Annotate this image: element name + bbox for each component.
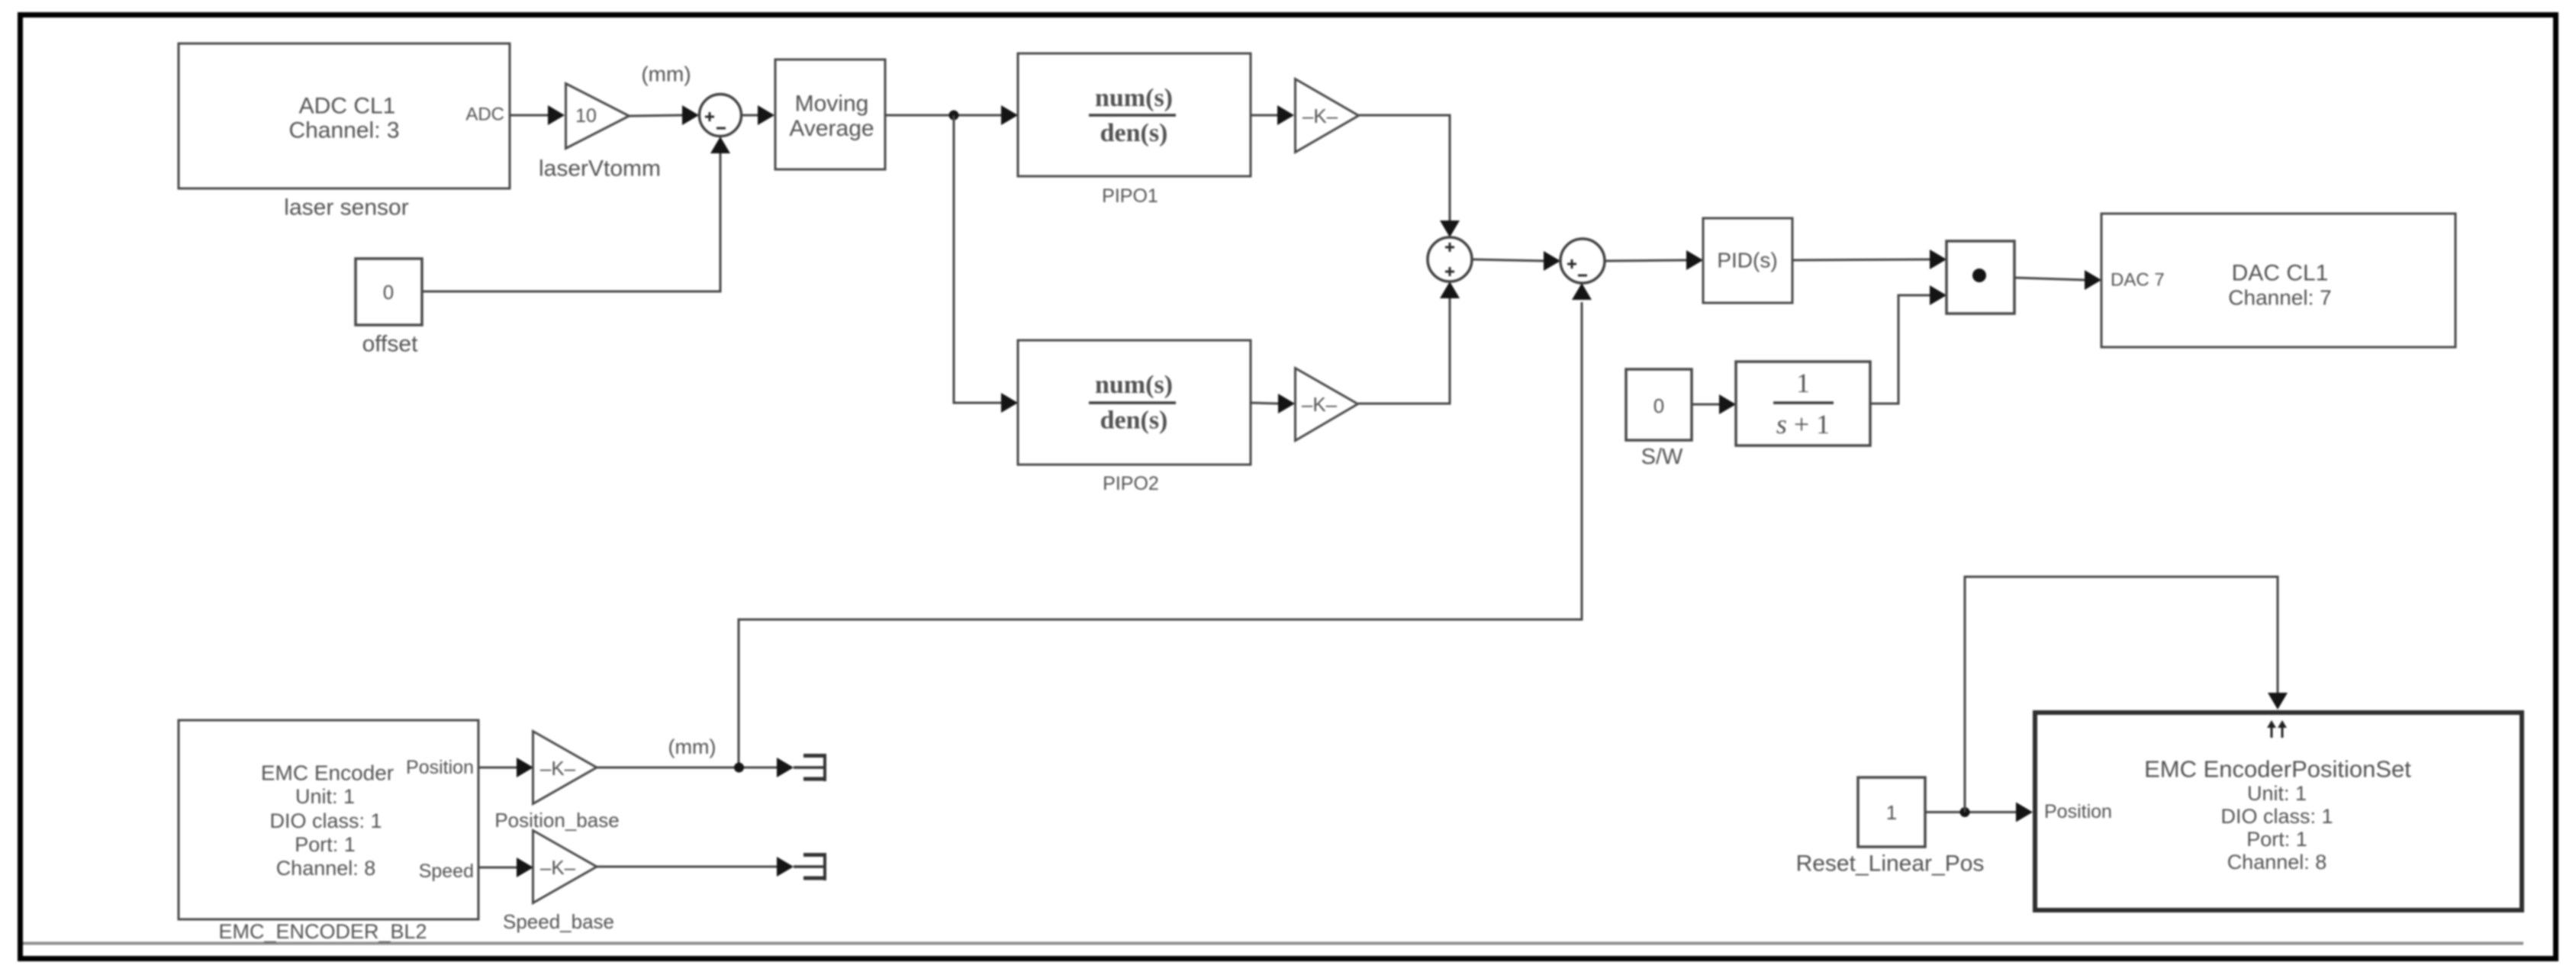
svg-text:Speed_base: Speed_base bbox=[503, 910, 614, 933]
svg-text:laserVtomm: laserVtomm bbox=[539, 156, 661, 182]
label EMC_ENCODER_BL2 bbox=[218, 920, 427, 943]
label Reset_Linear_Pos bbox=[1796, 851, 1985, 877]
wire reset junction up over to block top (trigger) bbox=[1965, 577, 2288, 812]
svg-text:S/W: S/W bbox=[1641, 445, 1683, 469]
svg-text:(mm): (mm) bbox=[641, 63, 691, 86]
label Position_base bbox=[494, 809, 619, 832]
svg-text:DAC 7: DAC 7 bbox=[2111, 270, 2165, 291]
block Moving Average bbox=[775, 60, 885, 169]
svg-text:0: 0 bbox=[383, 281, 394, 304]
port label Speed (encoder out) bbox=[419, 861, 474, 882]
svg-text:–K–: –K– bbox=[1302, 393, 1338, 416]
svg-text:den(s): den(s) bbox=[1100, 119, 1168, 147]
label laser sensor bbox=[284, 195, 408, 220]
node junction position line bbox=[734, 763, 744, 773]
node junction reset line bbox=[1960, 807, 1970, 817]
wire gain K1 to sum2 top bbox=[1359, 115, 1460, 237]
node junction after Moving Average bbox=[949, 111, 959, 121]
block DAC CL1 bbox=[2101, 214, 2455, 347]
svg-text:Position_base: Position_base bbox=[494, 809, 619, 832]
svg-text:offset: offset bbox=[362, 332, 418, 357]
svg-text:EMC_ENCODER_BL2: EMC_ENCODER_BL2 bbox=[218, 920, 427, 943]
svg-text:Channel: 8: Channel: 8 bbox=[2227, 851, 2327, 874]
gain Position_base (-K-) bbox=[533, 732, 597, 804]
wire Moving Average to PIPO1 with junction bbox=[886, 105, 1018, 125]
wire feedback from position junction to sum3 bbox=[739, 283, 1592, 767]
trigger icon on EncoderPositionSet bbox=[2267, 720, 2287, 738]
gain K2 (-K-) bbox=[1296, 368, 1358, 441]
svg-text:Moving: Moving bbox=[795, 92, 869, 117]
wire S/W to transfer fcn 1/(s+1) bbox=[1692, 394, 1736, 414]
constant block S/W (0) bbox=[1626, 369, 1692, 440]
svg-text:Unit: 1: Unit: 1 bbox=[2247, 782, 2307, 805]
svg-text:den(s): den(s) bbox=[1100, 407, 1168, 435]
wire Reset to EncoderPositionSet Position bbox=[1925, 803, 2033, 822]
wire PIPO1 to gain K1 bbox=[1251, 105, 1294, 125]
wire Position_base to terminator 1 bbox=[597, 758, 794, 777]
wire encoder Position to gain Position_base bbox=[478, 758, 533, 777]
svg-text:Channel: 7: Channel: 7 bbox=[2228, 286, 2331, 310]
port label Position (EncoderPositionSet in) bbox=[2044, 801, 2112, 822]
svg-text:Channel: 3: Channel: 3 bbox=[288, 118, 399, 143]
svg-text:–K–: –K– bbox=[540, 856, 576, 879]
label PIPO1 bbox=[1102, 185, 1158, 207]
svg-text:ADC: ADC bbox=[465, 105, 504, 125]
svg-text:laser sensor: laser sensor bbox=[284, 195, 408, 220]
svg-text:1: 1 bbox=[1886, 801, 1897, 824]
terminator T1 bbox=[794, 754, 825, 781]
wire 1/(s+1) up to product lower input bbox=[1870, 285, 1946, 404]
label PIPO2 bbox=[1103, 473, 1159, 494]
svg-text:num(s): num(s) bbox=[1095, 371, 1173, 399]
wire ADC to gain laserVtomm bbox=[510, 105, 565, 125]
svg-text:DIO class: 1: DIO class: 1 bbox=[269, 809, 382, 832]
svg-text:Port: 1: Port: 1 bbox=[2246, 828, 2307, 851]
wire gain laserVtomm to sum1 bbox=[630, 105, 699, 125]
wire Speed_base to terminator 2 bbox=[597, 857, 794, 877]
svg-text:DIO class: 1: DIO class: 1 bbox=[2220, 805, 2333, 828]
wire junction down to PIPO2 bbox=[954, 115, 1018, 413]
block PIPO2 transfer function num(s)/den(s) bbox=[1018, 340, 1251, 465]
label laserVtomm bbox=[539, 156, 661, 182]
constant block offset (0) bbox=[356, 259, 422, 325]
svg-text:(mm): (mm) bbox=[668, 735, 716, 758]
bottom gray rule bbox=[23, 942, 2523, 945]
svg-text:Unit: 1: Unit: 1 bbox=[295, 785, 355, 808]
block PIPO1 transfer function num(s)/den(s) bbox=[1018, 53, 1251, 176]
svg-text:ADC CL1: ADC CL1 bbox=[299, 94, 396, 119]
label S/W bbox=[1641, 445, 1683, 469]
sum junction S2 (+,+) bbox=[1428, 237, 1472, 282]
svg-text:0: 0 bbox=[1653, 394, 1664, 417]
svg-text:Position: Position bbox=[406, 757, 474, 778]
svg-text:Channel: 8: Channel: 8 bbox=[276, 857, 376, 880]
svg-text:Speed: Speed bbox=[419, 861, 474, 882]
wire encoder Speed to gain Speed_base bbox=[478, 858, 533, 877]
sum junction S3 (+,-) bbox=[1560, 239, 1605, 283]
wire sum1 to Moving Average bbox=[742, 105, 774, 125]
label Speed_base bbox=[503, 910, 614, 933]
sum junction S1 (+,-) bbox=[700, 95, 742, 137]
port label ADC bbox=[465, 105, 504, 125]
svg-text:Average: Average bbox=[789, 116, 874, 141]
svg-text:PIPO1: PIPO1 bbox=[1102, 185, 1158, 207]
port label Position (encoder out) bbox=[406, 757, 474, 778]
gain laserVtomm (10) bbox=[566, 84, 630, 149]
svg-text:PID(s): PID(s) bbox=[1717, 249, 1777, 272]
svg-text:Reset_Linear_Pos: Reset_Linear_Pos bbox=[1796, 851, 1985, 877]
svg-text:–K–: –K– bbox=[1302, 105, 1338, 127]
terminator T2 bbox=[794, 853, 825, 880]
svg-text:Position: Position bbox=[2044, 801, 2112, 822]
svg-text:1: 1 bbox=[1796, 368, 1810, 398]
svg-text:s + 1: s + 1 bbox=[1776, 409, 1830, 439]
svg-text:PIPO2: PIPO2 bbox=[1103, 473, 1159, 494]
block PID(s) bbox=[1703, 218, 1792, 303]
svg-text:EMC EncoderPositionSet: EMC EncoderPositionSet bbox=[2144, 756, 2411, 783]
annotation (mm) top bbox=[641, 63, 691, 86]
svg-text:DAC CL1: DAC CL1 bbox=[2232, 261, 2329, 286]
block EMC EncoderPositionSet (bold subsystem) bbox=[2035, 713, 2522, 910]
annotation (mm) bottom bbox=[668, 735, 716, 758]
wire PID to product upper input bbox=[1792, 249, 1946, 269]
svg-text:num(s): num(s) bbox=[1095, 84, 1173, 112]
wire PIPO2 to gain K2 bbox=[1251, 394, 1295, 413]
wire offset to sum1 bbox=[422, 137, 730, 291]
block transfer fcn 1/(s+1) bbox=[1736, 362, 1870, 446]
product block (dot) bbox=[1946, 241, 2014, 314]
label offset bbox=[362, 332, 418, 357]
svg-text:Port: 1: Port: 1 bbox=[295, 833, 356, 856]
gain Speed_base (-K-) bbox=[533, 831, 597, 903]
svg-text:10: 10 bbox=[575, 105, 597, 127]
wire product to DAC bbox=[2014, 270, 2101, 290]
svg-text:–K–: –K– bbox=[540, 757, 576, 780]
wire sum3 to PID bbox=[1605, 250, 1703, 270]
block ADC CL1 (laser sensor source) bbox=[179, 43, 510, 188]
label ADC CL1 text bbox=[288, 94, 399, 143]
wire gain K2 to sum2 bottom bbox=[1358, 282, 1460, 404]
wire sum2 to sum3 bbox=[1472, 251, 1560, 271]
svg-text:EMC Encoder: EMC Encoder bbox=[261, 761, 394, 785]
block EMC Encoder (EMC_ENCODER_BL2) bbox=[179, 720, 478, 919]
constant block Reset_Linear_Pos (1) bbox=[1858, 777, 1925, 847]
gain K1 (-K-) bbox=[1296, 79, 1359, 153]
